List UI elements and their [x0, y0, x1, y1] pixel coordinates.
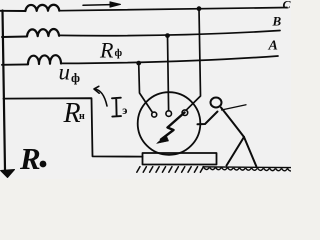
- phase line A: [2, 63, 28, 65]
- breakdown (fault) lightning arrow: [161, 113, 185, 140]
- svg-text:ф: ф: [71, 70, 80, 85]
- inductor L1 on phase C: [25, 5, 59, 11]
- person arm touching motor: [198, 112, 218, 125]
- label Iэ (touch current): [112, 98, 121, 117]
- svg-text:C: C: [283, 0, 292, 12]
- current direction arrow on phase C: [83, 4, 111, 7]
- earth surface wavy line under person: [203, 167, 294, 171]
- svg-text:э: э: [122, 103, 127, 117]
- wire: left vertical bus: [3, 11, 6, 171]
- phase line B: [2, 36, 27, 39]
- svg-text:u: u: [59, 60, 71, 85]
- svg-text:B: B: [272, 14, 282, 29]
- inductor L3 on phase A: [28, 55, 61, 64]
- node on phase A (junction dot): [136, 61, 141, 66]
- motor M1 (machine frame circle): [138, 92, 201, 155]
- svg-text:R: R: [99, 38, 114, 63]
- wire: neutral branch through Rн to motor base: [4, 98, 143, 156]
- inductor L2 on phase B: [27, 29, 59, 36]
- earth hatching under base: [137, 167, 204, 173]
- svg-text:ф: ф: [115, 47, 123, 59]
- svg-text:A: A: [268, 39, 278, 54]
- node on phase B (junction dot): [165, 33, 170, 38]
- svg-text:н: н: [79, 111, 85, 122]
- wire: phase A drop to motor terminal: [139, 63, 153, 112]
- person right leg: [244, 137, 256, 166]
- motor terminal 2: [166, 111, 172, 117]
- motor terminal 1: [152, 112, 157, 117]
- person arm raised back: [222, 105, 247, 110]
- phase line C: [0, 10, 25, 12]
- wire: phase C drop to motor terminal: [186, 9, 201, 111]
- node on phase C (junction dot): [197, 6, 202, 11]
- ground electrode arrow (current into earth): [1, 170, 15, 178]
- svg-text:R: R: [63, 98, 81, 129]
- person left leg: [227, 137, 245, 166]
- svg-text:R: R: [19, 141, 41, 176]
- curved arrow of fault current: [95, 89, 108, 106]
- motor base / foundation: [143, 153, 217, 165]
- motor terminal 3: [182, 110, 188, 116]
- person head: [211, 98, 222, 108]
- person body: [221, 108, 244, 138]
- wire: phase B drop to motor terminal: [168, 36, 169, 111]
